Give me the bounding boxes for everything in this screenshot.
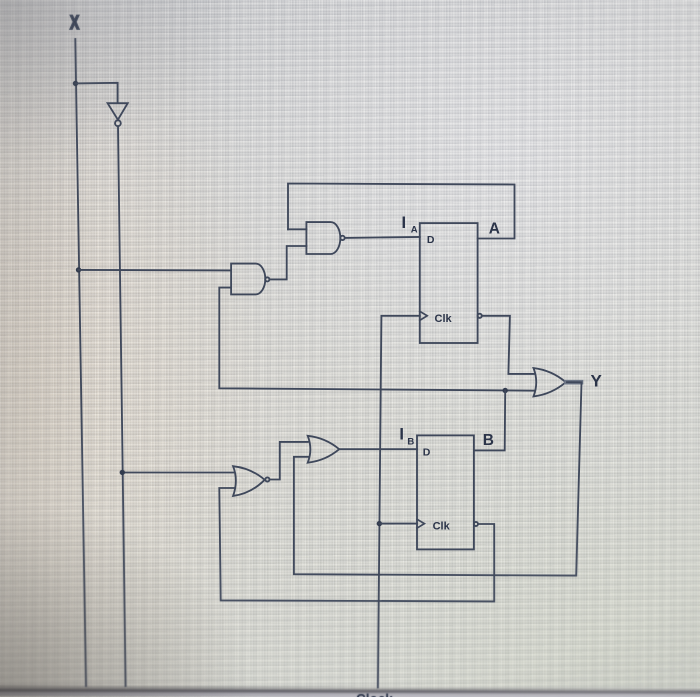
NAND gate G2 [231, 264, 269, 295]
pin Clk triangle FF B [417, 519, 424, 528]
flip-flop U3 (B) box [417, 435, 474, 549]
wire OR1 output thick stub [567, 380, 582, 385]
wire OR2 output to D of FF B (net IB) [339, 448, 417, 450]
pin Clk triangle FF A [420, 311, 427, 320]
node junction X to NAND2 [76, 267, 81, 272]
flip-flop U2 (A) box [420, 223, 478, 343]
pin Qbar bubble FF A [478, 314, 482, 318]
wire X to NAND2 input A [79, 269, 232, 272]
wire NAND1 top input stub [288, 228, 306, 230]
wire A feedback top loop [288, 184, 515, 239]
NAND gate G1 [306, 222, 344, 254]
pin Qbar bubble FF B [474, 522, 478, 526]
wire B feedback to NAND2 input B [219, 288, 534, 391]
wire inverter output vertical (Xbar) [118, 126, 126, 686]
label IB [399, 426, 414, 448]
wire Qbar B feedback to NOR bottom input [219, 488, 494, 601]
label IA [402, 214, 418, 236]
OR gate G2B (IB) [308, 436, 340, 463]
wire Xbar to NOR top input [122, 472, 233, 474]
node junction Xbar to NOR [120, 470, 125, 475]
wire NOR output to OR2 top input [270, 442, 308, 480]
inverter U1 [108, 103, 128, 126]
wire NAND2 output to NAND1 input B [270, 246, 307, 279]
node junction clock to FF B [377, 521, 382, 526]
wire clock to FF A Clk [378, 316, 420, 688]
OR gate G3 (Y) [534, 368, 566, 396]
wire Y feedback loop to OR2 bottom input [294, 382, 582, 575]
wire clock junction to FF B Clk [379, 523, 417, 525]
wire Qbar A to OR1 top input [482, 316, 534, 374]
wire X junction to inverter input [76, 83, 118, 103]
node junction B to OR1 [503, 388, 508, 393]
wire B output up to junction [474, 391, 505, 451]
NOR gate G4 [233, 466, 269, 496]
wire NAND1 output to D of FF A (net IA) [345, 237, 420, 238]
node junction X to inverter [73, 81, 78, 86]
wire X vertical [75, 39, 86, 686]
